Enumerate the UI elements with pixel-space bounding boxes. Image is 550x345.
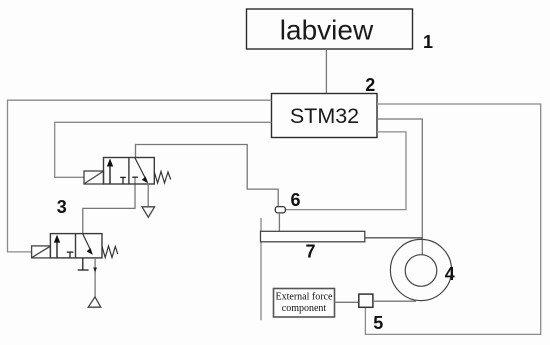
svg-text:component: component: [282, 303, 327, 314]
wire STM32 right rail to node under square 5: [365, 104, 540, 334]
wire external force box to load cell 5: [335, 301, 359, 303]
svg-text:7: 7: [305, 242, 315, 262]
svg-text:3: 3: [57, 197, 67, 217]
valve V2 body: [50, 234, 102, 258]
valve V2 return spring: [102, 246, 118, 258]
wire load cell 5 to wheel: [373, 300, 416, 302]
valve V1 blocked port T1: [120, 177, 126, 183]
svg-text:2: 2: [365, 75, 375, 95]
valve V1 exhaust line: [147, 184, 149, 207]
cylinder C7 body: [261, 231, 365, 242]
valve V2 exhaust triangle: [88, 297, 101, 307]
box U2 STM32: [272, 94, 378, 138]
valve V2 exhaust line: [94, 258, 96, 297]
valve V2 solenoid: [32, 246, 51, 258]
valve V1 diagonal flow path: [135, 158, 148, 183]
wire sensor 6 to cylinder 7: [278, 213, 280, 231]
load cell 5 square: [359, 294, 373, 307]
svg-text:External force: External force: [276, 292, 333, 303]
valve V2 diagonal flow path: [83, 234, 93, 255]
box U1 labview: [247, 9, 413, 49]
svg-text:4: 4: [445, 264, 455, 284]
valve V2 flow arrow up: [54, 235, 60, 258]
wire STM32 left to valve V2 solenoid (left rail): [8, 100, 272, 252]
wheel W4 inner circle: [405, 255, 437, 287]
valve V1 blocked port T2 bar: [132, 176, 138, 178]
svg-text:labview: labview: [280, 15, 374, 46]
wire STM32 right to sensor 6: [285, 132, 406, 210]
sensor S6: [275, 207, 285, 213]
valve V1 flow arrow up: [107, 159, 113, 184]
svg-text:5: 5: [373, 313, 383, 333]
svg-text:6: 6: [290, 190, 300, 210]
svg-text:1: 1: [423, 32, 433, 52]
svg-text:STM32: STM32: [290, 104, 359, 128]
wire STM32 right to wheel 4: [377, 119, 422, 255]
valve V1 solenoid: [84, 171, 104, 184]
wire valve V1 outlet to sensor 6: [136, 145, 279, 207]
box external force component: [274, 289, 335, 318]
valve V1 exhaust triangle: [142, 207, 155, 217]
valve V1 body: [104, 158, 155, 185]
cylinder guide rod vertical: [260, 218, 262, 320]
piston rod to wheel: [365, 237, 423, 239]
wheel W4 outer circle: [390, 239, 451, 300]
valve V2 blocked port T1: [67, 252, 74, 258]
wire STM32 left to valve V1 solenoid: [55, 122, 272, 177]
wire valve V1 port to valve V2 inlet: [83, 177, 135, 233]
valve V1 return spring: [154, 172, 170, 184]
wire labview to STM32: [325, 49, 327, 94]
valve V2 exhaust arrow tick: [93, 268, 97, 273]
valve V2 blocked port T2 below body: [78, 258, 89, 270]
